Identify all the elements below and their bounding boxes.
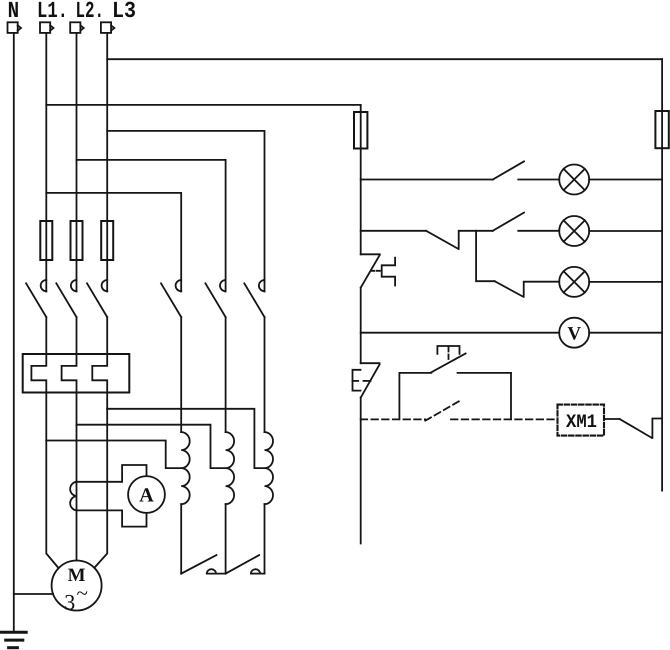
star contact seat 1 bbox=[207, 569, 226, 573]
wire voltmeter row left bbox=[361, 332, 560, 334]
terminal N bbox=[8, 22, 22, 33]
wire starter pole 1 lower bbox=[180, 317, 182, 432]
heater FR pole 2 bbox=[62, 317, 77, 425]
terminal L3 bbox=[101, 22, 115, 33]
fuse FU2 bbox=[71, 221, 83, 260]
voltmeter PV bbox=[559, 318, 589, 348]
ground bbox=[1, 632, 27, 647]
svg-text:A: A bbox=[139, 484, 154, 506]
socket XM1 bbox=[558, 405, 605, 436]
contact KM2 pole 2 bbox=[205, 280, 225, 317]
svg-text:L3: L3 bbox=[112, 0, 136, 24]
star contact blade 1 bbox=[181, 555, 216, 574]
svg-text:~: ~ bbox=[76, 581, 87, 605]
wire L1 upper bbox=[45, 33, 47, 292]
CT winding on L2 bbox=[70, 482, 76, 511]
thermal contact FR on left rail bbox=[353, 363, 380, 397]
contact QF pole 3 bbox=[87, 280, 107, 317]
motor M1 bbox=[52, 561, 102, 615]
wire lamp row 1 right bbox=[518, 179, 559, 181]
svg-text:V: V bbox=[567, 323, 581, 344]
heater FR pole 1 bbox=[31, 317, 46, 440]
svg-text:3: 3 bbox=[64, 589, 75, 614]
wire socket to blade bbox=[604, 418, 620, 420]
overload relay FR box bbox=[23, 354, 130, 393]
wire branch L1 to starter pole 1 bbox=[46, 193, 181, 292]
wire winding 2 bottom bbox=[225, 504, 227, 573]
wire L1 to motor bbox=[46, 441, 58, 568]
wire lamp row 1 left bbox=[361, 179, 493, 181]
transfer contact row 2 bbox=[426, 231, 493, 249]
wire left rail upper bbox=[360, 105, 362, 254]
wire left rail lower bbox=[360, 398, 362, 544]
wire N to motor bbox=[14, 593, 53, 595]
svg-text:XM1: XM1 bbox=[566, 411, 597, 433]
lamp HL1 bbox=[559, 165, 589, 195]
wire blade seat to rail bbox=[652, 419, 662, 438]
pushbutton SB bbox=[399, 346, 511, 419]
fuse FU1 bbox=[40, 221, 52, 260]
contact KM2 pole 3 bbox=[244, 280, 264, 317]
switch blade row 1 bbox=[493, 161, 524, 179]
svg-text:L2.: L2. bbox=[76, 0, 105, 24]
svg-text:N: N bbox=[8, 0, 20, 24]
wire left rail middle bbox=[360, 288, 362, 364]
wire winding 3 bottom bbox=[264, 504, 266, 573]
fuse FU5 bbox=[655, 111, 668, 148]
contact KM on left rail bbox=[361, 254, 395, 287]
wire lamp row 2 left bbox=[361, 230, 426, 232]
switch blade row 2 bbox=[493, 213, 524, 231]
fuse FU4 bbox=[354, 112, 367, 149]
plug blade dashed bbox=[425, 401, 459, 421]
wire top bus L3 to right rail bbox=[107, 58, 662, 60]
tap wire A from L3 to winding 3 bbox=[107, 409, 264, 468]
wire starter pole 3 lower bbox=[264, 317, 266, 432]
contact QF pole 2 bbox=[56, 280, 76, 317]
terminal L2 bbox=[70, 22, 84, 33]
wire right rail bbox=[661, 59, 663, 490]
plug blade right bbox=[620, 419, 652, 438]
autotransformer winding T1 bbox=[181, 432, 190, 504]
wire branch L3 to starter pole 3 bbox=[107, 131, 264, 292]
wire ammeter loop bottom bbox=[77, 510, 147, 526]
autotransformer winding T2 bbox=[226, 432, 235, 504]
switch blade row 3 bbox=[495, 281, 560, 297]
wire voltmeter to rail bbox=[589, 332, 662, 334]
wire control feed L1 to left rail bbox=[46, 104, 360, 106]
wire branch L2 to starter pole 2 bbox=[77, 160, 226, 292]
contact QF pole 1 bbox=[26, 280, 46, 317]
wire L2 to motor bbox=[76, 425, 78, 561]
wire lamp 3 to rail bbox=[589, 281, 662, 283]
wire ammeter loop top bbox=[77, 465, 147, 482]
wire plug row dashed left bbox=[361, 418, 426, 420]
star contact seat 2 bbox=[251, 569, 265, 573]
wire winding 1 bottom bbox=[180, 504, 182, 573]
wire L2 upper bbox=[76, 33, 78, 292]
ammeter PA bbox=[128, 476, 165, 513]
wire L3 upper bbox=[106, 33, 108, 292]
wire L3 to motor bbox=[95, 409, 107, 567]
terminal L1 bbox=[40, 22, 54, 33]
wire N vertical bbox=[13, 33, 15, 632]
wire starter pole 2 lower bbox=[225, 317, 227, 432]
heater FR pole 3 bbox=[92, 317, 107, 409]
fuse FU3 bbox=[101, 221, 113, 260]
lamp HL3 bbox=[559, 267, 589, 297]
tap wire B from L2 to winding 2 bbox=[77, 425, 226, 468]
lamp HL2 bbox=[559, 216, 589, 246]
wire lamp 2 to rail bbox=[589, 230, 662, 232]
wire lamp row 2 right bbox=[518, 230, 559, 232]
svg-text:L1.: L1. bbox=[37, 0, 68, 24]
tap wire C from L1 to winding 1 bbox=[46, 441, 181, 469]
star contact blade 2 bbox=[226, 555, 260, 574]
contact KM2 pole 1 bbox=[161, 280, 181, 317]
wire plug row dashed right bbox=[451, 418, 558, 420]
wire lamp 1 to rail bbox=[589, 179, 662, 181]
autotransformer winding T3 bbox=[265, 432, 274, 504]
wire branch row 2 to row 3 bbox=[476, 231, 495, 281]
